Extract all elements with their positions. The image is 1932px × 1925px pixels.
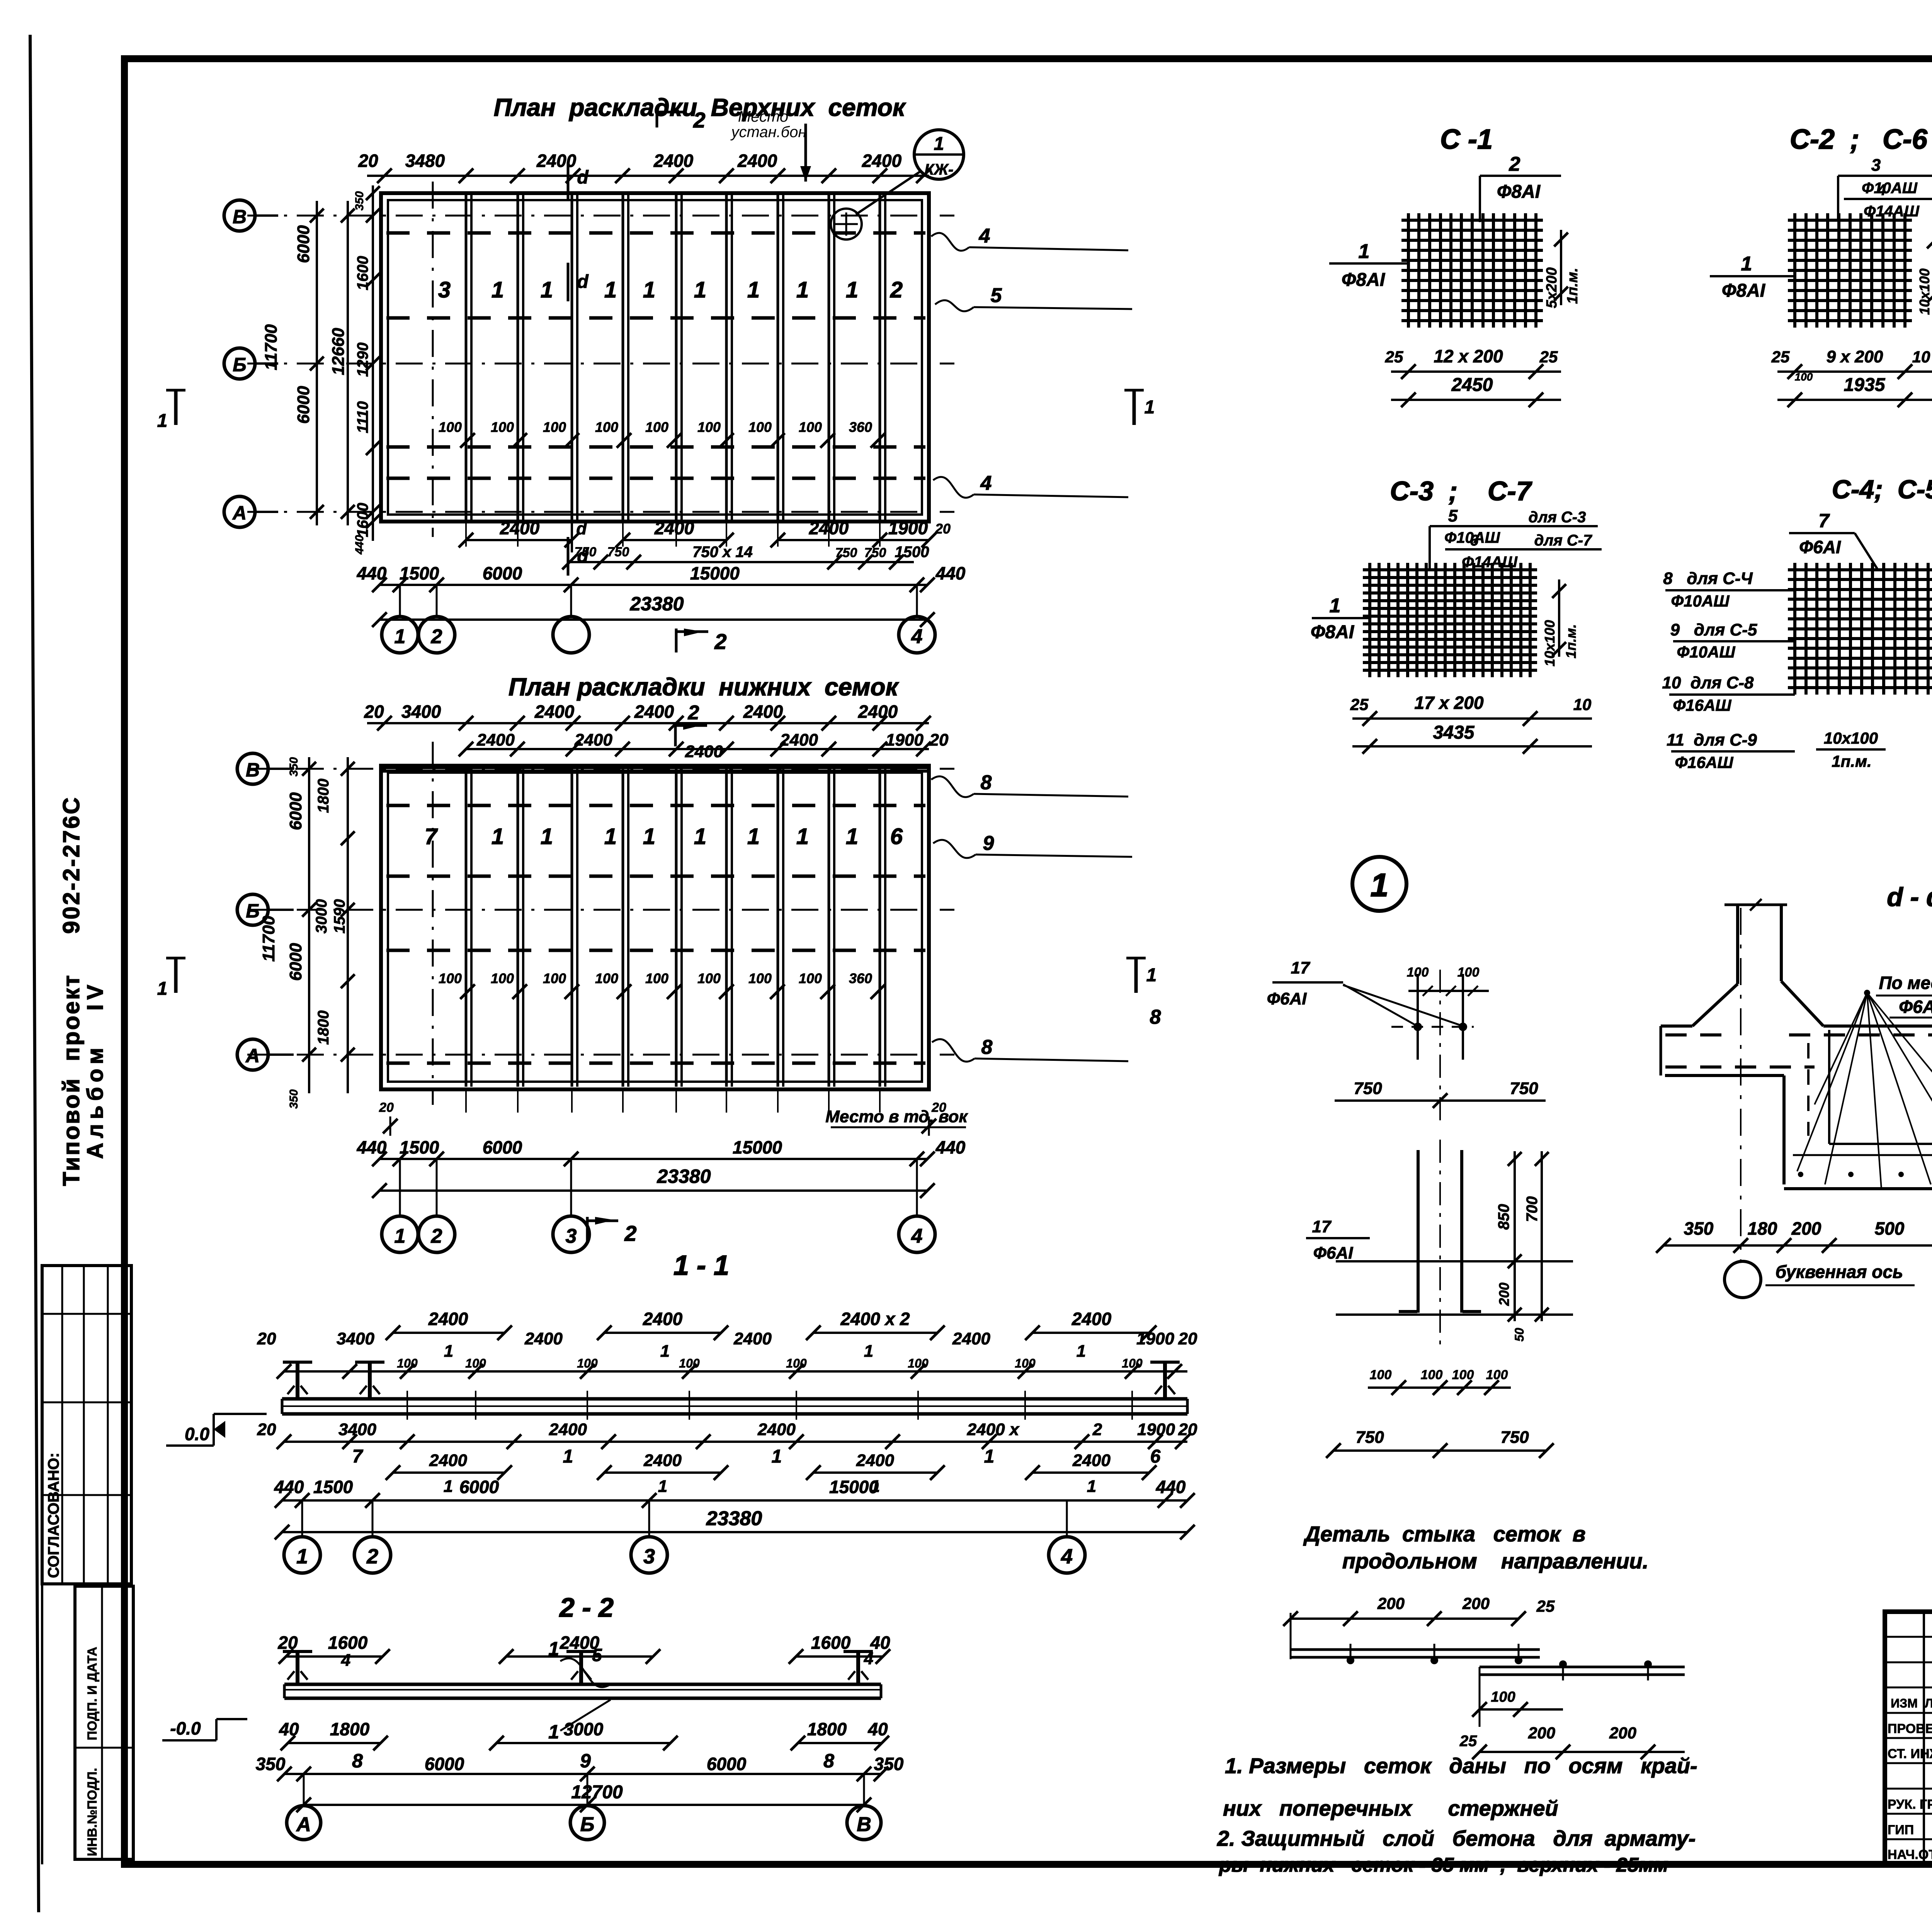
- svg-text:Б: Б: [246, 900, 259, 922]
- section 1-1 small ticks on slab: [406, 1391, 408, 1420]
- svg-text:23380: 23380: [656, 1166, 711, 1187]
- svg-text:1590: 1590: [331, 899, 348, 934]
- svg-text:2400: 2400: [549, 1420, 587, 1439]
- svg-text:1: 1: [864, 1342, 873, 1361]
- svg-text:1: 1: [846, 824, 858, 849]
- svg-text:1: 1: [643, 824, 655, 849]
- svg-text:2400: 2400: [856, 1451, 894, 1470]
- svg-text:1: 1: [444, 1342, 453, 1361]
- svg-text:1: 1: [694, 824, 706, 849]
- svg-text:1: 1: [1087, 1477, 1096, 1496]
- svg-text:440: 440: [935, 563, 966, 583]
- svg-text:4: 4: [1877, 182, 1886, 199]
- svg-text:100: 100: [491, 970, 514, 986]
- svg-text:2400: 2400: [574, 731, 612, 749]
- svg-text:А: А: [245, 1045, 260, 1067]
- svg-text:Место: Место: [738, 108, 788, 125]
- upper plan section mark 1-1 right: [1133, 390, 1136, 425]
- upper plan callout circle 1/КЖ-: [914, 130, 964, 179]
- svg-text:2400 х 2: 2400 х 2: [840, 1309, 910, 1329]
- svg-text:6000: 6000: [459, 1477, 499, 1497]
- svg-text:5х200: 5х200: [1544, 267, 1560, 308]
- left margin box ПОДП. И ДАТА / ИНВ №ПОДЛ.: [75, 1586, 133, 1859]
- lower plan axis circles В Б А: [237, 753, 268, 784]
- svg-text:15000: 15000: [690, 563, 740, 583]
- svg-text:750: 750: [607, 545, 629, 559]
- mesh C-2 leader 1 Ф8АI: [1710, 275, 1795, 277]
- upper plan axis lines dash-dot: [247, 215, 954, 217]
- svg-text:1: 1: [660, 1342, 670, 1361]
- svg-text:750: 750: [1354, 1079, 1382, 1098]
- svg-text:1: 1: [296, 1545, 308, 1568]
- svg-text:4: 4: [341, 1651, 350, 1670]
- svg-text:2400: 2400: [634, 702, 674, 722]
- lower plan axis bubbles bottom: [382, 1216, 418, 1252]
- svg-text:2: 2: [431, 625, 442, 648]
- svg-text:40: 40: [279, 1719, 299, 1739]
- svg-text:2: 2: [688, 702, 699, 724]
- svg-text:6: 6: [1470, 532, 1479, 549]
- svg-text:Деталь стыка сеток в: Деталь стыка сеток в: [1303, 1522, 1586, 1546]
- svg-text:2400: 2400: [429, 1451, 467, 1470]
- svg-text:1: 1: [395, 625, 406, 648]
- svg-text:2 - 2: 2 - 2: [559, 1592, 614, 1623]
- svg-text:1: 1: [1145, 397, 1155, 418]
- svg-text:устан.бон: устан.бон: [730, 124, 807, 141]
- svg-text:100: 100: [577, 1356, 598, 1370]
- svg-text:20: 20: [379, 1100, 394, 1115]
- svg-text:6: 6: [1150, 1446, 1161, 1467]
- svg-text:100: 100: [465, 1356, 486, 1370]
- svg-text:Ф8АI: Ф8АI: [1342, 270, 1386, 290]
- svg-text:СТ. ИНЖ: СТ. ИНЖ: [1888, 1747, 1932, 1761]
- svg-text:буквенная ось: буквенная ось: [1776, 1262, 1903, 1282]
- svg-text:4: 4: [980, 472, 992, 494]
- svg-text:2400: 2400: [952, 1329, 990, 1348]
- svg-text:3000: 3000: [564, 1719, 604, 1739]
- mesh C-4 bottom dim 10x100 1п.м.: [1816, 748, 1886, 751]
- svg-text:20: 20: [931, 1100, 946, 1115]
- lower plan section mark 1 right: [1134, 958, 1138, 993]
- svg-text:2: 2: [366, 1545, 378, 1568]
- svg-text:100: 100: [1486, 1368, 1508, 1382]
- svg-text:25: 25: [1385, 348, 1403, 366]
- svg-text:1800: 1800: [315, 779, 332, 813]
- title block outer box: [1885, 1612, 1932, 1864]
- svg-text:23380: 23380: [706, 1507, 762, 1530]
- svg-text:100: 100: [1015, 1356, 1036, 1370]
- svg-text:Ф6АI: Ф6АI: [1799, 537, 1841, 557]
- svg-text:2400: 2400: [858, 702, 898, 722]
- svg-text:3: 3: [1871, 156, 1881, 175]
- svg-text:1п.м.: 1п.м.: [1563, 624, 1579, 659]
- svg-text:100: 100: [1122, 1356, 1143, 1370]
- lower plan dashed mesh edges: [386, 804, 925, 807]
- svg-text:4: 4: [1061, 1545, 1073, 1568]
- svg-text:17: 17: [1291, 958, 1311, 977]
- svg-text:2400: 2400: [743, 702, 783, 722]
- svg-text:8: 8: [981, 1036, 993, 1058]
- svg-text:20: 20: [257, 1420, 276, 1439]
- lower plan axis lines dash-dot: [247, 768, 954, 770]
- lower plan section mark 2 bottom: [586, 1217, 589, 1241]
- section 2-2 upper dims: [286, 1655, 383, 1658]
- svg-text:4: 4: [911, 625, 923, 648]
- svg-text:6000: 6000: [286, 792, 305, 830]
- svg-text:ры нижних сеток - 35 мм ,: ры нижних сеток - 35 мм , верхних - 25мм: [1218, 1854, 1668, 1876]
- svg-text:1: 1: [548, 1721, 559, 1743]
- svg-text:20: 20: [929, 731, 949, 749]
- svg-text:В: В: [233, 206, 247, 228]
- mesh C-4 grid: [1793, 563, 1796, 695]
- svg-text:200: 200: [1791, 1218, 1821, 1239]
- svg-text:3480: 3480: [405, 151, 445, 171]
- title block stamp rows: [1885, 1636, 1932, 1638]
- mesh C-1 leader 2 Ф8АI: [1479, 176, 1481, 222]
- lower plan vertical axis 2 dash-dot: [432, 742, 434, 1105]
- svg-text:100: 100: [697, 419, 721, 435]
- svg-text:d: d: [577, 272, 589, 292]
- svg-text:1: 1: [541, 277, 553, 302]
- svg-text:РУК. ГР.: РУК. ГР.: [1888, 1797, 1932, 1812]
- section 1-1 lower dim chain D: [393, 1471, 505, 1474]
- svg-text:15000: 15000: [733, 1137, 782, 1157]
- svg-text:1800: 1800: [807, 1719, 847, 1739]
- left trim line: [30, 35, 39, 1912]
- svg-text:Типовой проект 902-2-276С: Типовой проект 902-2-276С: [58, 796, 84, 1186]
- svg-text:2400: 2400: [1072, 1451, 1111, 1470]
- svg-text:1: 1: [492, 824, 504, 849]
- lower plan callout 8 bottom: [932, 1039, 975, 1062]
- svg-text:ИНВ.№ПОДЛ.: ИНВ.№ПОДЛ.: [85, 1768, 100, 1856]
- svg-text:200: 200: [1496, 1283, 1512, 1306]
- upper plan left dim chain 6000/6000: [316, 201, 318, 525]
- svg-text:2400 х: 2400 х: [967, 1420, 1020, 1439]
- d-d bottom dim chain 350 180 200 500 200: [1663, 1244, 1932, 1247]
- upper plan section mark 1-1 left: [174, 390, 178, 425]
- section 2-2 rebar T marks: [296, 1651, 299, 1684]
- svg-text:10 для С-8: 10 для С-8: [1662, 673, 1754, 692]
- svg-text:10: 10: [1912, 348, 1930, 366]
- svg-text:ГИП: ГИП: [1888, 1823, 1914, 1837]
- svg-text:Ф6АI: Ф6АI: [1267, 989, 1307, 1008]
- lower plan section mark 1 left: [174, 958, 178, 993]
- svg-text:8: 8: [823, 1750, 834, 1772]
- svg-text:2400: 2400: [476, 731, 515, 749]
- svg-text:25: 25: [1536, 1597, 1555, 1615]
- svg-text:7: 7: [1818, 510, 1830, 532]
- lower plan mesh boundary extensions below: [465, 1089, 467, 1113]
- lower plan callout 9: [933, 840, 976, 858]
- svg-text:20: 20: [358, 151, 378, 171]
- svg-text:25: 25: [1539, 348, 1558, 366]
- svg-text:-0.0: -0.0: [170, 1718, 201, 1738]
- svg-text:100: 100: [439, 970, 462, 986]
- svg-text:2400: 2400: [534, 702, 575, 722]
- svg-text:1600: 1600: [354, 256, 371, 291]
- svg-text:12 х 200: 12 х 200: [1434, 346, 1503, 366]
- svg-text:200: 200: [1528, 1724, 1555, 1742]
- svg-text:11700: 11700: [259, 916, 278, 962]
- upper plan d section marks: [567, 162, 570, 201]
- svg-text:1: 1: [444, 1477, 453, 1496]
- upper plan axis circles В Б А: [224, 200, 255, 231]
- svg-text:2400: 2400: [654, 518, 694, 538]
- svg-text:750: 750: [1355, 1428, 1384, 1447]
- svg-text:8: 8: [1150, 1006, 1161, 1028]
- svg-text:10х100: 10х100: [1917, 268, 1932, 315]
- svg-text:10х100: 10х100: [1542, 620, 1558, 666]
- svg-text:6: 6: [890, 824, 903, 849]
- d-d dashed rebar top row: [1665, 1033, 1731, 1036]
- svg-text:750 х 14: 750 х 14: [692, 544, 753, 561]
- svg-text:10х100: 10х100: [1824, 729, 1878, 747]
- svg-text:С-4; С-5; С-8 ; С-9: С-4; С-5; С-8 ; С-9: [1832, 475, 1932, 504]
- svg-text:для С-7: для С-7: [1534, 532, 1592, 549]
- svg-text:1: 1: [1330, 595, 1341, 617]
- svg-text:17: 17: [1312, 1217, 1332, 1236]
- upper plan slab outline: [381, 193, 929, 522]
- svg-text:2: 2: [1092, 1420, 1102, 1439]
- svg-text:12660: 12660: [329, 328, 348, 375]
- svg-text:2: 2: [624, 1221, 636, 1245]
- svg-text:2400: 2400: [643, 1309, 683, 1329]
- svg-text:3000: 3000: [313, 899, 330, 934]
- svg-text:50: 50: [1512, 1328, 1526, 1342]
- svg-text:НАЧ.ОТД: НАЧ.ОТД: [1888, 1847, 1932, 1862]
- svg-text:2400: 2400: [653, 151, 694, 171]
- svg-text:6000: 6000: [294, 386, 313, 424]
- d-d wall: [1736, 905, 1739, 984]
- svg-text:1 - 1: 1 - 1: [673, 1250, 729, 1281]
- svg-text:100: 100: [543, 419, 566, 435]
- mesh C-2 top leaders: [1837, 176, 1839, 220]
- svg-text:1: 1: [747, 824, 760, 849]
- svg-text:100: 100: [1795, 371, 1813, 383]
- svg-text:3435: 3435: [1433, 722, 1475, 743]
- svg-text:5: 5: [1448, 506, 1458, 525]
- svg-text:20: 20: [935, 521, 951, 537]
- svg-text:А: А: [296, 1813, 311, 1836]
- svg-text:2450: 2450: [1451, 375, 1493, 395]
- svg-text:1900: 1900: [1137, 1420, 1175, 1439]
- svg-text:360: 360: [849, 419, 872, 435]
- svg-text:100: 100: [908, 1356, 929, 1370]
- svg-text:2: 2: [693, 108, 705, 132]
- svg-text:Ф6АI: Ф6АI: [1899, 997, 1932, 1017]
- node detail upper: centerline: [1439, 970, 1441, 1120]
- lower plan top dim chain row1: [367, 722, 929, 724]
- upper plan mesh boundary extensions below: [465, 522, 467, 547]
- svg-text:1: 1: [1146, 965, 1157, 985]
- svg-text:Альбом IV: Альбом IV: [83, 980, 108, 1159]
- svg-text:1110: 1110: [354, 401, 371, 433]
- svg-text:1800: 1800: [315, 1011, 332, 1045]
- svg-text:3400: 3400: [338, 1420, 376, 1439]
- svg-text:2400: 2400: [757, 1420, 796, 1439]
- svg-text:ИЗМ: ИЗМ: [1891, 1696, 1918, 1710]
- svg-text:200: 200: [1462, 1594, 1490, 1612]
- svg-text:500: 500: [1875, 1218, 1905, 1239]
- svg-text:440: 440: [353, 535, 366, 555]
- svg-text:1800: 1800: [330, 1719, 370, 1739]
- left margin table СОГЛАСОВАНО: [42, 1266, 131, 1584]
- title block stamp columns: [1923, 1612, 1925, 1864]
- section 2-2 lower dims 1800 3000 1800: [288, 1742, 381, 1744]
- mesh C-1 bottom dims: [1391, 370, 1561, 373]
- lower plan top dim chain row2: [466, 748, 929, 750]
- svg-text:100: 100: [1370, 1368, 1392, 1382]
- svg-text:1290: 1290: [354, 343, 371, 377]
- svg-text:1: 1: [796, 277, 809, 302]
- svg-text:12700: 12700: [571, 1782, 623, 1803]
- svg-text:2400: 2400: [643, 1451, 682, 1470]
- svg-text:2400: 2400: [733, 1329, 772, 1348]
- svg-text:25: 25: [1771, 348, 1790, 366]
- section 2-2 axis bubbles А Б В: [287, 1806, 321, 1840]
- section 1-1 axis bubbles: [284, 1537, 320, 1573]
- svg-text:1500: 1500: [313, 1477, 353, 1497]
- lower plan left dims: [308, 757, 310, 1093]
- mesh C-4 leader 7 Ф6АI: [1789, 532, 1855, 534]
- svg-text:850: 850: [1495, 1204, 1512, 1230]
- svg-text:3400: 3400: [337, 1329, 374, 1348]
- node detail circle 1: [1352, 857, 1406, 911]
- svg-text:А: А: [232, 502, 247, 524]
- svg-text:100: 100: [748, 419, 772, 435]
- lower plan mesh boundary lines: [465, 768, 468, 1087]
- svg-text:2400: 2400: [809, 518, 849, 538]
- svg-text:1. Размеры сеток даны по: 1. Размеры сеток даны по осям край-: [1225, 1753, 1697, 1778]
- svg-text:2400: 2400: [524, 1329, 563, 1348]
- svg-text:ЛИСТ: ЛИСТ: [1925, 1696, 1932, 1710]
- svg-text:360: 360: [849, 970, 872, 986]
- upper plan section mark 2 bottom: [675, 629, 678, 652]
- section 1-1 rebar T marks: [296, 1362, 299, 1399]
- upper plan section mark 2 (top): [656, 112, 658, 127]
- svg-text:2: 2: [1509, 153, 1520, 175]
- svg-text:Ф8АI: Ф8АI: [1311, 622, 1355, 642]
- svg-text:750: 750: [864, 545, 886, 560]
- svg-text:100: 100: [397, 1356, 418, 1370]
- svg-text:План раскладки нижних семок: План раскладки нижних семок: [509, 673, 900, 701]
- svg-text:9: 9: [983, 832, 994, 855]
- node detail lower: rebar pair: [1417, 1150, 1420, 1313]
- d-d буквенная ось label: [1725, 1261, 1761, 1298]
- d-d axis line: [1740, 908, 1742, 1261]
- svg-text:100: 100: [1458, 965, 1480, 980]
- svg-text:100: 100: [697, 970, 721, 986]
- svg-text:100: 100: [645, 419, 668, 435]
- svg-text:1п.м.: 1п.м.: [1832, 752, 1871, 770]
- svg-text:100: 100: [1491, 1689, 1515, 1705]
- svg-text:100: 100: [543, 970, 566, 986]
- svg-text:1: 1: [157, 979, 168, 999]
- upper plan bottom dim row 2400s: [466, 539, 572, 541]
- svg-text:2400: 2400: [536, 151, 577, 171]
- svg-text:17 х 200: 17 х 200: [1414, 693, 1483, 713]
- svg-text:Ф16АШ: Ф16АШ: [1675, 753, 1734, 771]
- svg-text:23380: 23380: [629, 593, 684, 615]
- svg-text:7: 7: [352, 1446, 364, 1467]
- svg-text:9 х 200: 9 х 200: [1827, 347, 1883, 366]
- svg-text:40: 40: [867, 1719, 888, 1739]
- svg-text:1: 1: [157, 411, 168, 431]
- svg-text:Ф10АШ: Ф10АШ: [1677, 643, 1736, 661]
- mesh C-1 grid: [1407, 213, 1410, 328]
- svg-text:для С-3: для С-3: [1529, 509, 1586, 526]
- svg-text:1п.м.: 1п.м.: [1565, 268, 1581, 304]
- svg-text:2400: 2400: [737, 151, 777, 171]
- svg-text:100: 100: [595, 419, 618, 435]
- svg-text:3400: 3400: [401, 702, 441, 722]
- svg-text:6000: 6000: [483, 563, 522, 583]
- svg-text:1935: 1935: [1844, 375, 1886, 395]
- svg-text:15000: 15000: [829, 1477, 879, 1497]
- svg-text:200: 200: [1609, 1724, 1636, 1742]
- svg-text:25: 25: [1459, 1733, 1477, 1750]
- lower plan callout 8 top: [931, 776, 974, 797]
- svg-text:1: 1: [1359, 240, 1370, 263]
- svg-text:продольном направлении.: продольном направлении.: [1342, 1549, 1649, 1573]
- svg-text:1: 1: [395, 1225, 406, 1247]
- svg-text:350: 350: [874, 1754, 904, 1774]
- svg-text:3: 3: [566, 1225, 577, 1247]
- svg-text:1: 1: [1077, 1342, 1086, 1361]
- svg-text:750: 750: [1500, 1428, 1529, 1447]
- svg-text:1: 1: [548, 1638, 559, 1660]
- svg-text:100: 100: [799, 419, 822, 435]
- svg-text:100: 100: [679, 1356, 700, 1370]
- svg-text:1: 1: [1741, 253, 1752, 275]
- svg-text:20: 20: [364, 702, 384, 722]
- svg-text:9: 9: [580, 1750, 591, 1772]
- svg-text:100: 100: [595, 970, 618, 986]
- upper plan splice marker circle: [831, 209, 862, 240]
- svg-text:2400: 2400: [780, 731, 818, 749]
- lower plan slab outline: [381, 766, 929, 1089]
- svg-text:6000: 6000: [483, 1137, 522, 1157]
- svg-text:1900: 1900: [888, 518, 928, 538]
- svg-text:700: 700: [1524, 1196, 1541, 1222]
- svg-text:350: 350: [287, 1089, 300, 1109]
- upper plan callout 4 (bottom right): [933, 477, 974, 498]
- svg-text:8 для С-Ч: 8 для С-Ч: [1663, 569, 1753, 588]
- svg-text:d - d: d - d: [1887, 882, 1932, 912]
- svg-text:1: 1: [604, 824, 617, 849]
- svg-text:1900: 1900: [886, 731, 923, 749]
- upper plan vertical axis 2 dash-dot: [432, 182, 434, 537]
- svg-text:Ф10АШ: Ф10АШ: [1862, 180, 1918, 197]
- svg-text:350: 350: [287, 757, 300, 776]
- section 1-1 upper dim chain A: [393, 1332, 505, 1334]
- mesh C-2 bottom dims: [1777, 370, 1932, 373]
- mesh C-1 leader 1 Ф8АI: [1329, 262, 1408, 265]
- svg-text:100: 100: [786, 1356, 807, 1370]
- svg-text:4: 4: [911, 1225, 923, 1247]
- svg-text:100: 100: [439, 419, 462, 435]
- mesh C-3 grid: [1368, 563, 1371, 677]
- svg-text:180: 180: [1748, 1218, 1777, 1239]
- svg-text:1: 1: [747, 277, 760, 302]
- node detail lower: right dims 850 700 200 50: [1514, 1151, 1516, 1321]
- svg-text:1: 1: [563, 1446, 573, 1467]
- svg-text:20: 20: [257, 1329, 276, 1348]
- svg-text:d: d: [577, 167, 589, 188]
- svg-text:1: 1: [541, 824, 553, 849]
- d-d dashed rebar second row: [1665, 1065, 1815, 1069]
- svg-text:Б: Б: [580, 1813, 595, 1836]
